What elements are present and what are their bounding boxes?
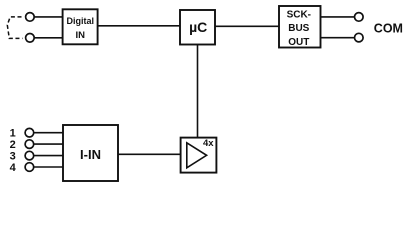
terminal circle 3 (25, 151, 34, 160)
wire bottom terminal to Digital IN (34, 37, 62, 39)
wire SCK-BUS OUT to COM top terminal (321, 16, 355, 18)
svg-text:OUT: OUT (288, 37, 309, 48)
wire Digital IN to uC (98, 25, 180, 27)
wire I-IN to amplifier (118, 153, 181, 155)
svg-text:Digital: Digital (67, 16, 95, 27)
wire uC to SCK-BUS OUT (215, 25, 279, 27)
block amplifier (181, 138, 217, 173)
svg-text:3: 3 (10, 150, 16, 162)
svg-text:BUS: BUS (288, 23, 309, 34)
terminal circle digital input top (26, 13, 35, 22)
external contact (dashed switch) (7, 17, 22, 39)
block Digital IN (63, 9, 98, 44)
svg-text:4x: 4x (203, 138, 214, 149)
wire terminal 1 to I-IN (34, 132, 63, 134)
wire terminal 4 to I-IN (34, 166, 63, 168)
svg-text:4: 4 (10, 162, 17, 174)
svg-text:COM: COM (374, 22, 403, 36)
svg-text:I-IN: I-IN (80, 147, 101, 162)
terminal circle 1 (25, 128, 34, 137)
svg-text:SCK-: SCK- (287, 9, 311, 20)
svg-text:2: 2 (10, 139, 16, 151)
wire terminal 3 to I-IN (34, 155, 63, 157)
wire top terminal to Digital IN (34, 16, 62, 18)
block uC (microcontroller) (180, 10, 215, 45)
amplifier triangle (187, 143, 207, 168)
wire uC to amplifier (vertical) (197, 44, 199, 137)
svg-text:IN: IN (76, 30, 86, 41)
svg-text:1: 1 (10, 128, 16, 140)
terminal circle 4 (25, 163, 34, 172)
terminal circle 2 (25, 140, 34, 149)
block I-IN (63, 125, 118, 181)
svg-text:µC: µC (189, 19, 207, 35)
block SCK-BUS OUT (279, 6, 321, 48)
wire SCK-BUS OUT to COM bottom terminal (321, 37, 355, 39)
wire terminal 2 to I-IN (34, 143, 63, 145)
terminal circle COM bottom (355, 33, 364, 42)
terminal circle COM top (355, 13, 364, 22)
terminal circle digital input bottom (26, 34, 35, 43)
